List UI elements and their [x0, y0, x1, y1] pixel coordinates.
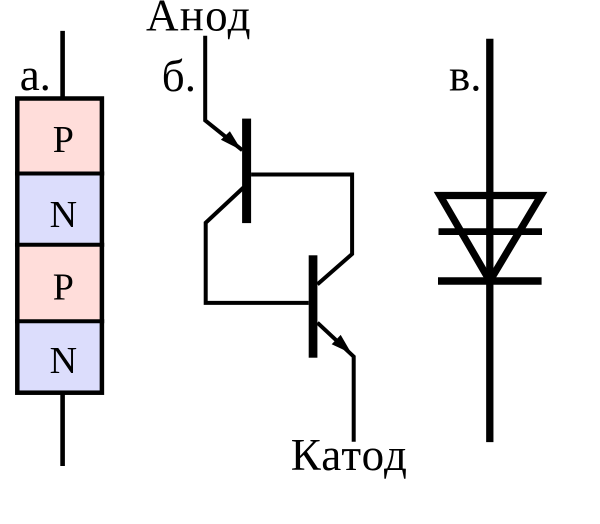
- svg-text:а.: а.: [20, 50, 51, 100]
- svg-text:N: N: [50, 340, 77, 382]
- wire vertical lead (section v): [486, 39, 493, 442]
- dinistor middle crossbar: [439, 228, 543, 235]
- wire cathode lead bottom (section a): [60, 393, 65, 466]
- svg-text:в.: в.: [449, 51, 482, 101]
- svg-text:Анод: Анод: [146, 0, 252, 41]
- layer P2 fill: [17, 245, 102, 321]
- svg-text:P: P: [53, 267, 74, 309]
- layer P1 fill: [17, 99, 102, 174]
- wire anode to Q1 emitter: [205, 36, 242, 150]
- dinistor triangle: [440, 196, 541, 282]
- divider P2/N2: [15, 319, 104, 323]
- divider N1/P2: [15, 243, 104, 247]
- wire Q1 base to Q2 collector: [251, 175, 352, 285]
- divider P1/N1: [15, 172, 104, 176]
- layer N2 fill: [17, 321, 102, 392]
- svg-text:Катод: Катод: [291, 430, 408, 480]
- svg-text:P: P: [53, 119, 74, 161]
- svg-text:N: N: [50, 194, 77, 236]
- wire anode lead top (section a): [60, 31, 65, 99]
- layer N1 fill: [17, 174, 102, 245]
- wire Q1 collector to Q2 base: [206, 188, 309, 303]
- dinistor cathode bar: [438, 277, 542, 284]
- transistor Q2 base bar: [309, 255, 318, 357]
- svg-text:б.: б.: [162, 51, 196, 101]
- box border: [17, 99, 102, 393]
- Q1 emitter arrow: [221, 131, 242, 150]
- transistor Q1 base bar: [242, 119, 251, 224]
- Q2 emitter arrow: [332, 335, 352, 354]
- wire Q2 emitter to cathode: [317, 323, 353, 442]
